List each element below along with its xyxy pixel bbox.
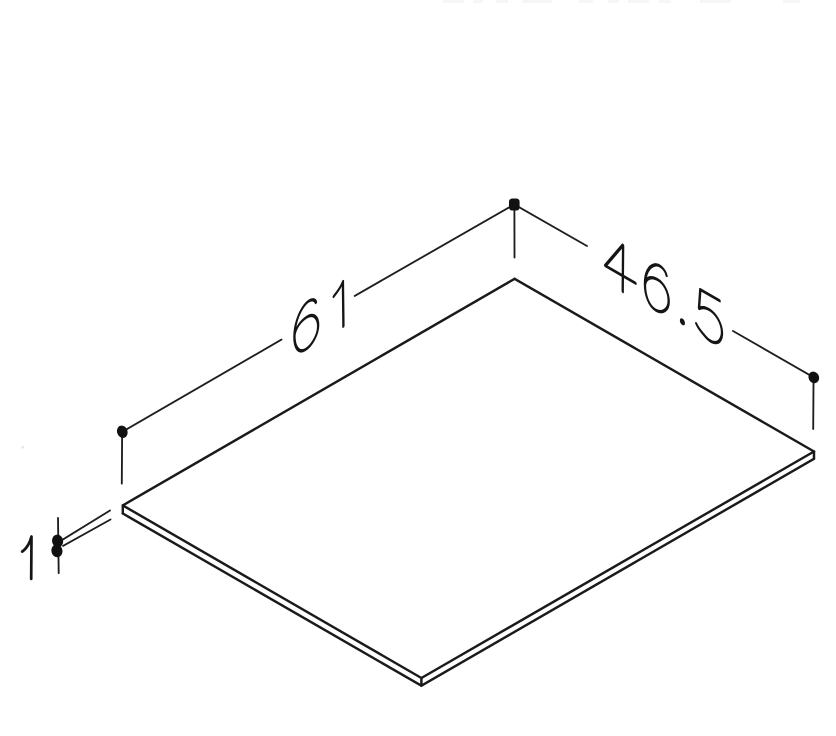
digit 5 of 46.5 — [696, 287, 722, 347]
extension line below dot C — [812, 383, 814, 429]
dimension text 46.5 — [605, 234, 722, 348]
tiny speck — [22, 446, 25, 449]
faint cropped text remnants at top edge — [443, 0, 800, 3]
extension line below dot A — [121, 438, 123, 484]
panel bottom face edge B'-R' — [421, 459, 814, 686]
digit 1 of 61 — [334, 281, 344, 332]
dot A (61 left endpoint) — [115, 424, 129, 439]
decimal point of 46.5 — [679, 319, 685, 325]
panel top face edge T-R — [515, 279, 814, 452]
panel corner edge L-L' — [122, 505, 124, 513]
extension line 1 bottom — [63, 520, 111, 546]
dimension text 61 — [294, 281, 343, 356]
panel top face edge T-L — [123, 279, 814, 686]
panel top face edge B-R — [421, 452, 814, 679]
digit 6 of 46.5 — [645, 257, 669, 317]
extension line 1 top — [63, 511, 110, 540]
dim line 61 segment right — [355, 204, 515, 296]
extension line below dot B — [513, 210, 515, 258]
dim line 61 segment left — [122, 340, 281, 432]
panel top face edge L-B — [123, 505, 422, 678]
panel corner edge B-B' — [420, 678, 422, 686]
panel corner edge R-R' — [813, 452, 815, 459]
dim line 46.5 segment right — [733, 331, 814, 377]
dim line 1 (vertical) — [57, 518, 60, 573]
digit 6 of 61 — [294, 296, 318, 356]
dot D2 (1 dim bottom) — [50, 544, 63, 559]
panel bottom face edge L'-B' — [123, 514, 422, 686]
dot B (61/46.5 shared endpoint) — [509, 199, 520, 211]
dimension text 1 (thickness) — [22, 537, 31, 579]
dim line 46.5 segment left — [514, 204, 587, 246]
dot C (46.5 right endpoint) — [807, 370, 821, 385]
dot D1 (1 dim top) — [51, 534, 64, 549]
digit 4 of 46.5 — [605, 235, 635, 283]
